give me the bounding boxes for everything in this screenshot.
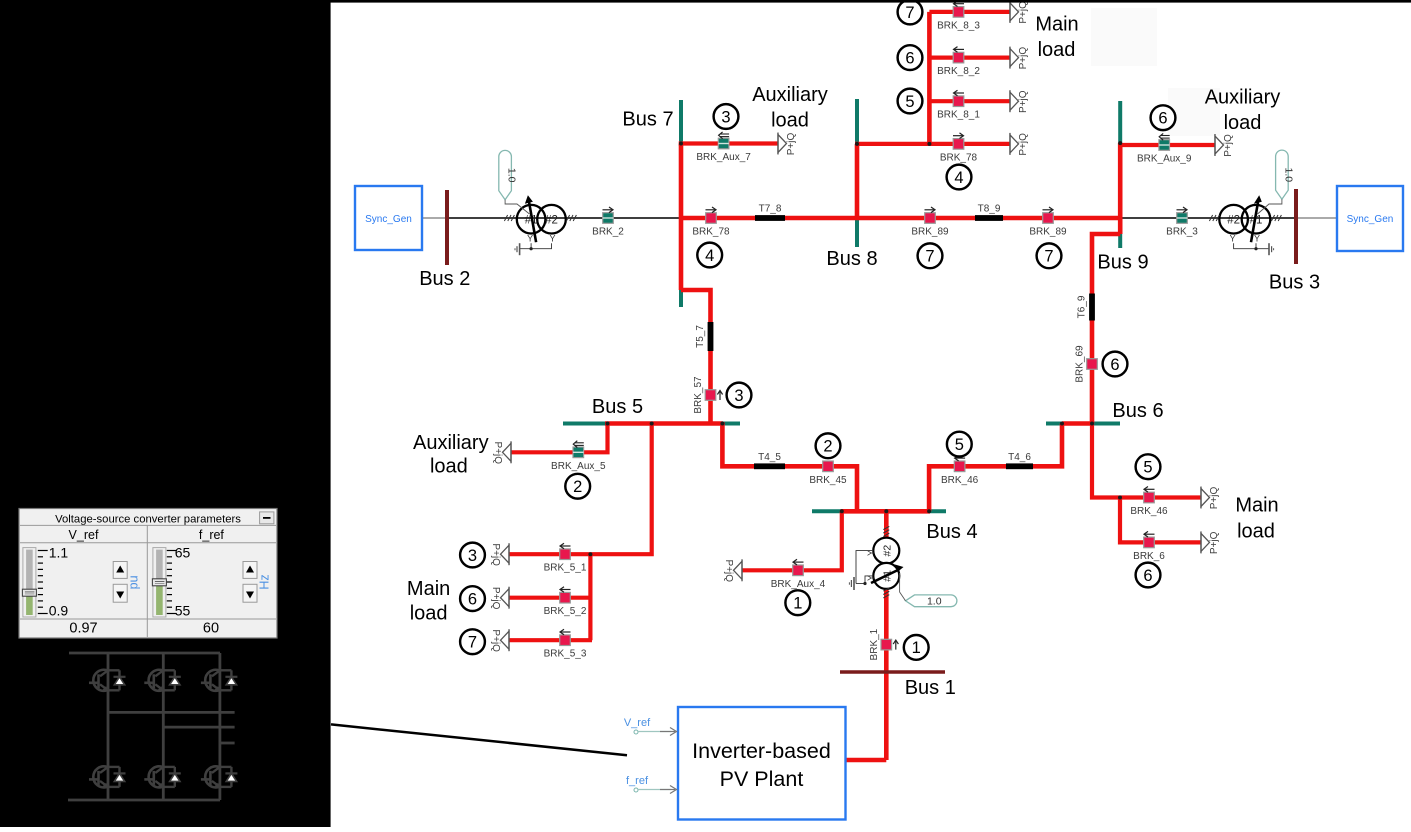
svg-text:Voltage-source converter param: Voltage-source converter parameters — [55, 514, 241, 526]
svg-text:Bus 1: Bus 1 — [905, 677, 956, 699]
svg-text:Y: Y — [1254, 234, 1260, 244]
svg-text:P+jQ: P+jQ — [490, 587, 501, 610]
svg-text:P+jQ: P+jQ — [1018, 47, 1029, 70]
svg-text:Bus 6: Bus 6 — [1112, 400, 1163, 422]
svg-text:1.1: 1.1 — [49, 545, 69, 561]
svg-text:1.0: 1.0 — [1282, 167, 1294, 182]
svg-text:5: 5 — [1143, 459, 1152, 477]
svg-text:load: load — [1038, 39, 1076, 61]
svg-text:1.0: 1.0 — [927, 596, 942, 608]
svg-text:V_ref: V_ref — [624, 717, 651, 729]
svg-text:V_ref: V_ref — [69, 528, 99, 542]
svg-text:Sync_Gen: Sync_Gen — [365, 214, 412, 225]
svg-text:Y: Y — [549, 234, 555, 244]
svg-text:BRK_8_2: BRK_8_2 — [937, 66, 980, 77]
svg-text:Bus 9: Bus 9 — [1097, 252, 1148, 274]
svg-text:1: 1 — [793, 595, 802, 613]
svg-text:Auxiliary: Auxiliary — [752, 84, 828, 106]
svg-text:#2: #2 — [1227, 215, 1240, 227]
svg-text:T8_9: T8_9 — [978, 204, 1001, 215]
svg-text:P+jQ: P+jQ — [1209, 487, 1220, 510]
svg-text:6: 6 — [1143, 567, 1152, 585]
svg-text:Bus 3: Bus 3 — [1269, 272, 1320, 294]
svg-text:Main: Main — [1035, 13, 1078, 35]
svg-text:Bus 8: Bus 8 — [826, 248, 877, 270]
svg-text:55: 55 — [175, 603, 191, 619]
svg-text:2: 2 — [573, 478, 582, 496]
svg-text:7: 7 — [1044, 248, 1053, 266]
svg-text:BRK_78: BRK_78 — [940, 152, 978, 163]
svg-text:BRK_8_1: BRK_8_1 — [937, 110, 980, 121]
svg-text:P+jQ: P+jQ — [1018, 133, 1029, 156]
svg-text:T7_8: T7_8 — [759, 204, 782, 215]
svg-text:Y: Y — [1230, 234, 1236, 244]
svg-text:BRK_69: BRK_69 — [1075, 345, 1086, 383]
svg-text:P+jQ: P+jQ — [786, 133, 797, 156]
svg-text:load: load — [1237, 521, 1275, 543]
svg-text:Main: Main — [1235, 495, 1278, 517]
svg-text:BRK_5_1: BRK_5_1 — [544, 563, 587, 574]
svg-text:P+jQ: P+jQ — [723, 560, 734, 583]
svg-text:Sync_Gen: Sync_Gen — [1347, 214, 1394, 225]
svg-text:1.0: 1.0 — [506, 168, 518, 183]
svg-text:T6_9: T6_9 — [1077, 295, 1088, 318]
svg-text:5: 5 — [905, 93, 914, 111]
svg-text:BRK_8_3: BRK_8_3 — [937, 20, 980, 31]
svg-text:65: 65 — [175, 545, 191, 561]
svg-text:5: 5 — [955, 436, 964, 454]
svg-text:P+jQ: P+jQ — [1018, 1, 1029, 24]
svg-text:BRK_46: BRK_46 — [1130, 506, 1168, 517]
svg-text:BRK_Aux_7: BRK_Aux_7 — [696, 152, 751, 163]
svg-text:7: 7 — [905, 4, 914, 22]
svg-text:BRK_89: BRK_89 — [1029, 227, 1067, 238]
svg-text:BRK_46: BRK_46 — [941, 475, 979, 486]
svg-text:2: 2 — [823, 438, 832, 456]
svg-text:load: load — [1224, 112, 1262, 134]
svg-text:T4_6: T4_6 — [1008, 452, 1031, 463]
svg-text:0.9: 0.9 — [49, 603, 69, 619]
svg-text:P+jQ: P+jQ — [1223, 134, 1234, 157]
svg-text:BRK_5_2: BRK_5_2 — [544, 606, 587, 617]
svg-text:pu: pu — [127, 575, 141, 589]
svg-text:Auxiliary: Auxiliary — [1205, 87, 1281, 109]
svg-text:6: 6 — [468, 590, 477, 608]
svg-text:3: 3 — [468, 547, 477, 565]
svg-text:6: 6 — [1110, 356, 1119, 374]
svg-text:#2: #2 — [881, 545, 893, 557]
svg-text:BRK_89: BRK_89 — [911, 227, 949, 238]
svg-text:P+jQ: P+jQ — [490, 629, 501, 652]
svg-text:Auxiliary: Auxiliary — [413, 432, 489, 454]
svg-text:PV Plant: PV Plant — [720, 767, 804, 791]
svg-text:load: load — [771, 110, 809, 132]
svg-text:P+jQ: P+jQ — [1018, 90, 1029, 113]
svg-text:Bus 2: Bus 2 — [419, 268, 470, 290]
svg-text:P+jQ: P+jQ — [492, 442, 503, 465]
svg-text:7: 7 — [468, 634, 477, 652]
svg-text:Hz: Hz — [258, 574, 272, 589]
svg-text:#2: #2 — [545, 215, 558, 227]
svg-text:Main: Main — [407, 578, 450, 600]
svg-text:3: 3 — [734, 387, 743, 405]
svg-text:load: load — [410, 603, 448, 625]
svg-text:BRK_Aux_4: BRK_Aux_4 — [771, 579, 826, 590]
svg-text:T4_5: T4_5 — [758, 452, 781, 463]
svg-text:BRK_5_3: BRK_5_3 — [544, 649, 587, 660]
svg-text:BRK_6: BRK_6 — [1133, 551, 1165, 562]
svg-text:4: 4 — [705, 247, 714, 265]
svg-text:BRK_78: BRK_78 — [692, 227, 730, 238]
svg-text:Bus 5: Bus 5 — [592, 396, 643, 418]
svg-text:1: 1 — [912, 639, 921, 657]
svg-text:BRK_Aux_5: BRK_Aux_5 — [551, 461, 606, 472]
svg-text:4: 4 — [954, 169, 963, 187]
svg-text:0.97: 0.97 — [69, 621, 97, 637]
svg-text:Inverter-based: Inverter-based — [692, 739, 831, 763]
svg-text:f_ref: f_ref — [199, 528, 225, 542]
svg-text:6: 6 — [905, 49, 914, 67]
svg-text:P+jQ: P+jQ — [490, 543, 501, 566]
svg-text:BRK_3: BRK_3 — [1166, 227, 1198, 238]
svg-text:T5_7: T5_7 — [695, 325, 706, 348]
svg-text:BRK_2: BRK_2 — [592, 227, 624, 238]
svg-text:BRK_1: BRK_1 — [869, 628, 880, 660]
svg-text:f_ref: f_ref — [626, 775, 649, 787]
svg-text:60: 60 — [203, 621, 219, 637]
svg-text:Bus 7: Bus 7 — [622, 109, 673, 131]
svg-text:Bus 4: Bus 4 — [926, 521, 977, 543]
svg-text:6: 6 — [1158, 110, 1167, 128]
svg-text:Y: Y — [527, 234, 533, 244]
svg-text:BRK_45: BRK_45 — [809, 475, 847, 486]
svg-text:7: 7 — [925, 248, 934, 266]
svg-text:3: 3 — [721, 108, 730, 126]
svg-text:load: load — [430, 456, 468, 478]
svg-text:P+jQ: P+jQ — [1209, 531, 1220, 554]
svg-text:BRK_57: BRK_57 — [693, 376, 704, 414]
svg-text:BRK_Aux_9: BRK_Aux_9 — [1137, 154, 1192, 165]
